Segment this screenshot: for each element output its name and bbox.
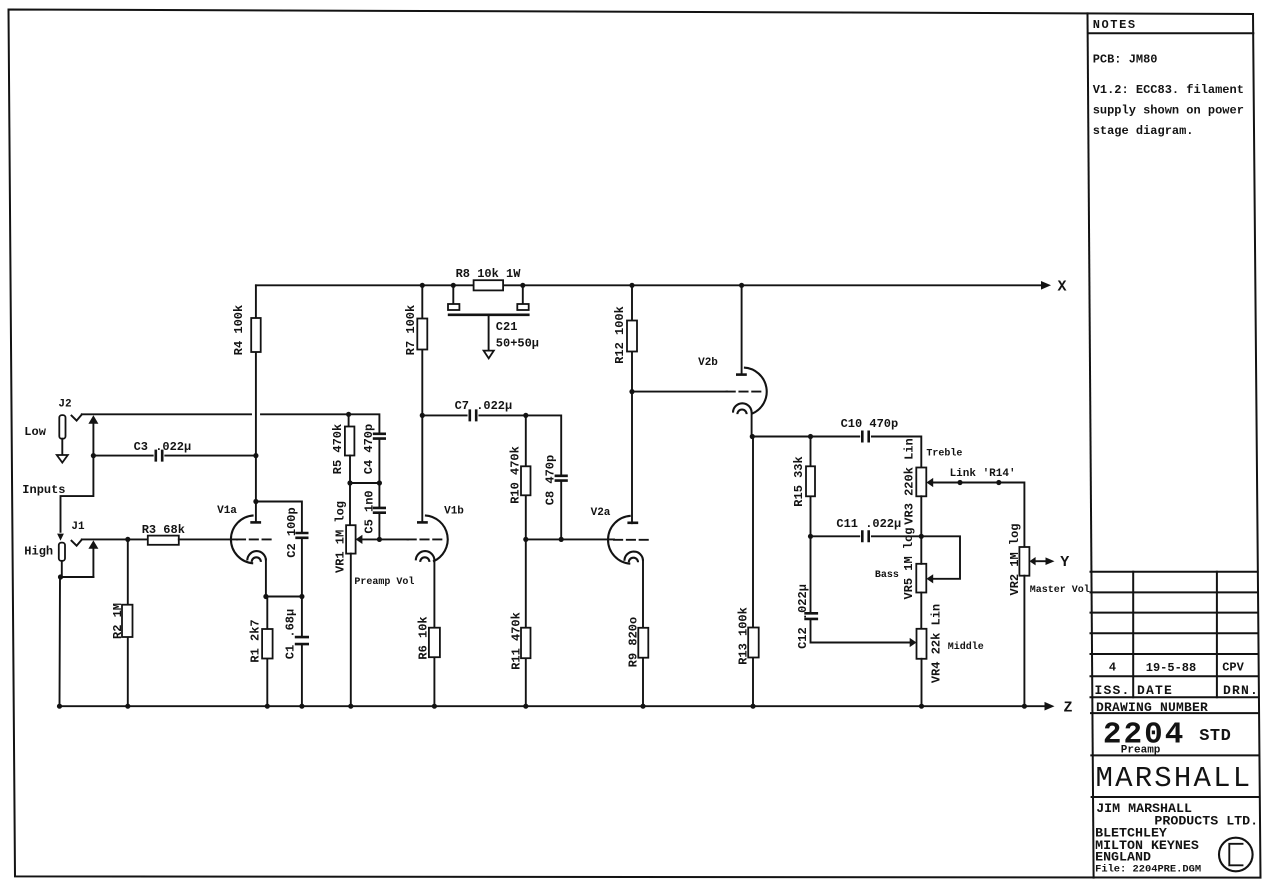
wire C21 stem xyxy=(488,315,490,351)
svg-text:supply shown on power: supply shown on power xyxy=(1093,104,1244,118)
wire J1 switch down xyxy=(92,549,94,577)
junction R5/C4 node left xyxy=(347,480,352,485)
wire R13 lead xyxy=(752,437,754,707)
svg-text:DRN.: DRN. xyxy=(1223,683,1259,698)
junction V2b anode on X bus xyxy=(739,283,744,288)
wire C1 lead top xyxy=(301,597,303,637)
svg-text:Y: Y xyxy=(1060,554,1069,571)
svg-text:J1: J1 xyxy=(71,521,85,533)
capacitor C10 xyxy=(862,431,868,443)
svg-text:50+50µ: 50+50µ xyxy=(496,337,539,351)
svg-text:X: X xyxy=(1057,279,1066,296)
resistor R4 xyxy=(251,318,261,352)
title table row line 0 xyxy=(1091,571,1258,573)
capacitor C21 terminals xyxy=(448,304,459,310)
svg-text:stage diagram.: stage diagram. xyxy=(1093,124,1194,138)
wire R1 lead xyxy=(266,597,268,707)
wire X bus (HT supply rail) xyxy=(256,284,1041,286)
svg-text:R9 820o: R9 820o xyxy=(627,617,641,667)
capacitor C11 xyxy=(862,530,868,542)
capacitor C3 xyxy=(156,450,162,462)
svg-text:Middle: Middle xyxy=(948,641,984,653)
svg-text:C2 100p: C2 100p xyxy=(285,507,299,557)
wire C12 to VR4 wiper xyxy=(811,619,911,643)
junction C7 on V1b anode xyxy=(420,413,425,418)
wire C4 bottom lead xyxy=(378,439,380,483)
wire J1 sleeve down xyxy=(61,561,63,577)
svg-text:C10 470p: C10 470p xyxy=(841,417,899,431)
wire J2 switch to C3 node xyxy=(92,424,94,456)
junction R8 left / C21 left xyxy=(451,283,456,288)
resistor R10 xyxy=(521,466,531,495)
resistor R13 xyxy=(748,628,759,658)
svg-text:STD: STD xyxy=(1199,727,1231,746)
junction C3 on V1a anode line xyxy=(253,453,258,458)
svg-text:C3 .022µ: C3 .022µ xyxy=(134,440,192,454)
resistor R11 xyxy=(521,628,531,659)
svg-text:C21: C21 xyxy=(496,320,518,334)
wire C11 right xyxy=(872,535,921,537)
resistor R1 xyxy=(262,629,273,659)
wire C3 right to V1a anode xyxy=(165,455,256,457)
wire R7 / V1b anode line xyxy=(421,285,423,522)
resistor R12 xyxy=(627,321,637,352)
junction R2 tap xyxy=(125,537,130,542)
wire R5 bottom lead xyxy=(349,456,351,484)
capacitor C4 xyxy=(373,434,386,439)
svg-text:19-5-88: 19-5-88 xyxy=(1146,661,1196,675)
capacitor C8 xyxy=(555,476,568,481)
drawing number box line xyxy=(1091,712,1258,714)
potentiometer VR3 wiper xyxy=(926,478,933,487)
wire J2 tip to V1b (low input) xyxy=(82,413,251,415)
wire V2a cathode / R9 lead xyxy=(642,560,644,706)
svg-text:R10 470k: R10 470k xyxy=(509,446,523,504)
jack J2 body xyxy=(59,415,65,439)
resistor R6 xyxy=(429,628,440,658)
wire VR2 wiper to Y xyxy=(1036,560,1046,562)
junction link R14 dot a xyxy=(957,480,962,485)
wire V2a grid xyxy=(526,538,614,540)
wire C21 right stub xyxy=(522,285,524,304)
wire V1b cathode / R6 lead xyxy=(433,560,435,706)
junction R15 top xyxy=(808,434,813,439)
svg-text:VR2 1M log: VR2 1M log xyxy=(1008,523,1022,595)
junction R10/R11 grid node xyxy=(523,537,528,542)
resistor R5 xyxy=(345,427,355,456)
junction R15/C11 node xyxy=(808,534,813,539)
svg-text:R12 100k: R12 100k xyxy=(613,306,627,364)
svg-text:C12 .022µ: C12 .022µ xyxy=(796,584,810,649)
wire C12 lead xyxy=(810,536,812,613)
marshall box line xyxy=(1091,754,1258,756)
wire Z ground rail xyxy=(60,705,1045,707)
wire R10/R11 line xyxy=(525,415,527,706)
wire C5 top lead xyxy=(378,483,380,508)
resistor R7 xyxy=(417,319,427,350)
potentiometer VR3 xyxy=(916,468,926,497)
junction V2b grid tap xyxy=(629,389,634,394)
svg-text:R7 100k: R7 100k xyxy=(404,305,418,355)
wire C7 right to C8 xyxy=(479,415,561,475)
wire C1 lead bottom xyxy=(301,644,303,706)
svg-text:C4 470p: C4 470p xyxy=(362,424,376,474)
junction R7 top on X bus xyxy=(420,283,425,288)
resistor R9 xyxy=(638,628,648,658)
svg-text:V2b: V2b xyxy=(698,357,718,369)
potentiometer VR5 wiper xyxy=(926,574,933,583)
svg-text:V1b: V1b xyxy=(444,506,464,518)
wire C10 right to VR3 xyxy=(872,437,921,468)
node Y arrowhead xyxy=(1046,557,1055,565)
wire VR3 bottom xyxy=(920,496,922,536)
svg-text:R11 470k: R11 470k xyxy=(510,612,524,670)
svg-text:File: 2204PRE.DGM: File: 2204PRE.DGM xyxy=(1095,863,1201,875)
junction link R14 dot b xyxy=(996,480,1001,485)
svg-text:R3 68k: R3 68k xyxy=(142,523,185,537)
svg-text:PRODUCTS LTD.: PRODUCTS LTD. xyxy=(1154,813,1258,828)
capacitor C7 xyxy=(470,409,476,421)
ground C21 xyxy=(484,351,494,359)
junction C3 / J2 switch xyxy=(91,453,96,458)
capacitor C1 xyxy=(295,637,309,644)
junction R6 on Z rail xyxy=(432,704,437,709)
junction VR2 on Z rail xyxy=(1022,704,1027,709)
junction R5 top xyxy=(346,412,351,417)
junction V1a cathode node xyxy=(263,594,268,599)
svg-text:R5 470k: R5 470k xyxy=(331,424,345,474)
svg-text:CPV: CPV xyxy=(1222,661,1244,675)
svg-text:J2: J2 xyxy=(58,399,71,411)
svg-text:MARSHALL: MARSHALL xyxy=(1096,762,1253,795)
wire low input continues to C4 xyxy=(261,414,379,434)
junction J1 sleeve / switch xyxy=(58,574,63,579)
title table row line 5 xyxy=(1091,675,1258,677)
wire C11 left xyxy=(811,535,860,537)
svg-text:VR3 220k Lin: VR3 220k Lin xyxy=(903,438,917,524)
copyright symbol C xyxy=(1229,844,1242,866)
tube V2a xyxy=(608,516,651,564)
junction R10 top xyxy=(523,413,528,418)
wire R3 to V1a grid xyxy=(179,538,237,540)
junction R5/C4 node right xyxy=(377,480,382,485)
ground J2 sleeve xyxy=(57,455,68,463)
wire R5 top lead xyxy=(348,414,350,426)
wire cathode crossbar xyxy=(266,596,302,598)
wire VR2 bottom xyxy=(1023,576,1025,707)
wire J1 sleeve-switch tie xyxy=(61,576,94,578)
wire C8 bottom xyxy=(560,481,562,540)
wire R4 / V1a anode line xyxy=(255,285,257,522)
svg-text:High: High xyxy=(24,545,53,559)
svg-text:Z: Z xyxy=(1063,700,1072,717)
svg-text:R4 100k: R4 100k xyxy=(232,305,246,355)
svg-text:C8 470p: C8 470p xyxy=(544,455,558,505)
junction R8 right / C21 right xyxy=(520,283,525,288)
capacitor C2 xyxy=(295,533,308,538)
potentiometer VR5 xyxy=(916,564,926,593)
wire R12 / V2a anode line xyxy=(631,285,633,523)
wire VR4 bottom xyxy=(921,659,923,706)
wire J1 tip to R3 xyxy=(82,538,148,540)
junction C8 on grid wire xyxy=(559,537,564,542)
wire VR1 top lead xyxy=(349,483,351,525)
svg-text:Inputs: Inputs xyxy=(22,483,65,497)
svg-text:C1 .68µ: C1 .68µ xyxy=(284,609,298,659)
svg-text:Preamp Vol: Preamp Vol xyxy=(354,576,414,588)
potentiometer VR4 wiper xyxy=(910,638,917,647)
svg-text:C7 .022µ: C7 .022µ xyxy=(455,399,513,413)
svg-text:R15 33k: R15 33k xyxy=(792,456,806,506)
wire VR5 to VR4 xyxy=(920,593,922,629)
svg-text:R2 1M: R2 1M xyxy=(111,603,125,639)
svg-text:ENGLAND: ENGLAND xyxy=(1095,850,1151,865)
potentiometer VR2 wiper xyxy=(1029,557,1035,565)
svg-text:PCB: JM80: PCB: JM80 xyxy=(1093,53,1158,67)
wire C21 left stub xyxy=(452,285,454,304)
svg-text:R1 2k7: R1 2k7 xyxy=(249,619,263,662)
wire VR1 wiper to V1b grid xyxy=(362,538,408,540)
svg-text:DRAWING NUMBER: DRAWING NUMBER xyxy=(1096,700,1208,715)
svg-text:V2a: V2a xyxy=(591,507,611,519)
resistor R8 xyxy=(474,280,504,290)
title table row line 2 xyxy=(1091,612,1258,614)
wire C5 bottom lead xyxy=(378,513,380,540)
wire R5-C4 tie xyxy=(350,482,379,484)
svg-text:C5 1n0: C5 1n0 xyxy=(363,490,377,533)
potentiometer VR1 xyxy=(346,525,356,553)
junction VR4 on Z rail xyxy=(919,704,924,709)
wire R15 lead xyxy=(810,437,812,537)
svg-text:R13 100k: R13 100k xyxy=(737,607,751,665)
junction R2 on Z rail xyxy=(125,704,130,709)
svg-text:VR5 1M log: VR5 1M log xyxy=(902,527,916,599)
junction input on Z rail xyxy=(57,704,62,709)
junction VR3/C11 node xyxy=(919,534,924,539)
notes panel divider xyxy=(1088,13,1094,877)
copyright symbol circle xyxy=(1219,838,1253,872)
junction R9 on Z rail xyxy=(640,704,645,709)
tube V2b xyxy=(727,285,767,436)
jack J1 body xyxy=(59,543,65,561)
junction C2 tap on anode line xyxy=(253,499,258,504)
jack J2 tip contact xyxy=(72,415,82,421)
potentiometer VR1 wiper xyxy=(356,535,363,544)
wire jog to J1 xyxy=(61,456,94,532)
capacitor C21 plate xyxy=(448,313,530,316)
title table row line 6 xyxy=(1091,696,1258,698)
jack J2 switch arrow xyxy=(88,415,98,423)
title table row line 1 xyxy=(1091,591,1258,593)
tube V1b xyxy=(408,515,448,562)
svg-text:VR1 1M log: VR1 1M log xyxy=(334,501,348,573)
capacitor C5 xyxy=(373,508,386,513)
svg-text:DATE: DATE xyxy=(1137,683,1173,698)
svg-text:NOTES: NOTES xyxy=(1093,18,1137,32)
svg-text:V1a: V1a xyxy=(217,505,237,517)
junction R11 on Z rail xyxy=(523,704,528,709)
junction V2b cathode node xyxy=(750,434,755,439)
title table column line 1 xyxy=(1132,572,1134,698)
wire C7 left xyxy=(422,414,466,416)
junction R1 on Z rail xyxy=(265,704,270,709)
svg-text:R8 10k 1W: R8 10k 1W xyxy=(456,267,522,281)
svg-text:Master Vol: Master Vol xyxy=(1030,584,1090,596)
node X arrowhead xyxy=(1041,281,1051,290)
svg-text:V1.2: ECC83. filament: V1.2: ECC83. filament xyxy=(1093,83,1244,97)
wire VR5 top lead xyxy=(920,536,922,564)
svg-text:4: 4 xyxy=(1109,661,1116,675)
wire V2b grid xyxy=(632,391,727,393)
wire V2b cathode to C10 xyxy=(752,436,859,438)
wire link R14 xyxy=(933,483,1024,548)
wire C2 bottom xyxy=(301,538,303,597)
svg-text:R6 10k: R6 10k xyxy=(417,616,431,659)
junction VR1 on Z rail xyxy=(348,704,353,709)
notes title underline xyxy=(1088,32,1253,34)
resistor R15 xyxy=(806,466,815,496)
svg-text:ISS.: ISS. xyxy=(1095,683,1131,698)
jack J1 tip contact xyxy=(72,540,82,546)
junction R13 on Z rail xyxy=(750,704,755,709)
wire input ground drop xyxy=(59,577,62,706)
svg-text:C11 .022µ: C11 .022µ xyxy=(836,517,901,531)
capacitor C12 xyxy=(804,613,818,619)
resistor R3 xyxy=(148,536,179,545)
junction C1 on Z rail xyxy=(299,704,304,709)
junction R12 top on X bus xyxy=(629,283,634,288)
junction C2/C1 node xyxy=(299,594,304,599)
title table column line 2 xyxy=(1216,572,1218,698)
title table row line 4 xyxy=(1091,653,1258,655)
jack J1 plug arrow xyxy=(57,534,64,541)
title table row line 3 xyxy=(1091,632,1258,634)
jack J1 switch arrow xyxy=(88,540,98,548)
address box line xyxy=(1092,796,1259,798)
potentiometer VR4 xyxy=(917,629,927,659)
svg-text:VR4 22k Lin: VR4 22k Lin xyxy=(930,604,944,683)
wire VR1 bottom lead xyxy=(350,554,352,707)
potentiometer VR2 xyxy=(1019,547,1029,576)
svg-text:Treble: Treble xyxy=(926,448,962,460)
wire C2 branch xyxy=(256,502,302,534)
wire C3 left xyxy=(93,455,152,457)
wire R2 lead xyxy=(127,539,129,706)
svg-text:Link 'R14': Link 'R14' xyxy=(950,468,1016,480)
wire bass wiper loop xyxy=(921,536,960,579)
junction C5 on wiper wire xyxy=(377,537,382,542)
tube V1a xyxy=(231,515,274,596)
svg-text:Low: Low xyxy=(24,425,46,439)
wire J2 sleeve to ground symbol xyxy=(61,439,63,455)
node Z arrowhead xyxy=(1045,702,1055,711)
resistor R2 xyxy=(122,605,133,637)
svg-text:Bass: Bass xyxy=(875,570,899,581)
